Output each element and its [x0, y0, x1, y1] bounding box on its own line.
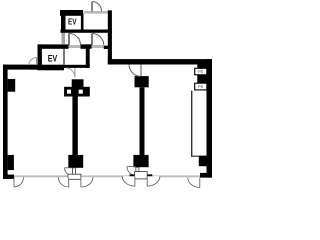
svg-text:EV: EV: [48, 54, 58, 64]
svg-text:PS: PS: [198, 85, 203, 89]
svg-text:EV: EV: [68, 17, 77, 27]
svg-text:PS: PS: [198, 70, 203, 74]
